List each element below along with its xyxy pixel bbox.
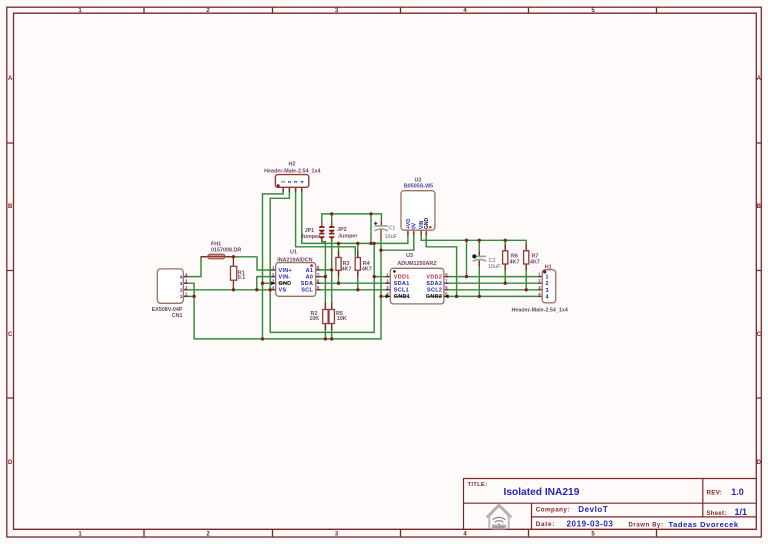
svg-text:2: 2: [287, 180, 292, 183]
svg-text:U1: U1: [290, 249, 297, 255]
svg-text:10K: 10K: [337, 316, 347, 322]
svg-text:VS: VS: [279, 288, 287, 294]
svg-text:10uF: 10uF: [385, 234, 398, 240]
svg-text:VIN-: VIN-: [279, 274, 291, 280]
svg-text:Isolated INA219: Isolated INA219: [504, 487, 580, 498]
svg-text:1: 1: [281, 180, 286, 183]
svg-text:2: 2: [546, 281, 549, 287]
svg-text:0.1: 0.1: [238, 275, 246, 281]
svg-text:A: A: [757, 76, 762, 82]
svg-text:REV:: REV:: [707, 490, 723, 497]
svg-text:2019-03-03: 2019-03-03: [567, 520, 614, 529]
svg-text:4: 4: [299, 180, 304, 183]
svg-text:SCL1: SCL1: [394, 288, 409, 294]
svg-text:0V: 0V: [412, 222, 418, 229]
svg-text:A: A: [8, 76, 13, 82]
svg-text:Company:: Company:: [536, 506, 570, 513]
svg-text:1.0: 1.0: [731, 487, 744, 497]
svg-text:1: 1: [546, 275, 549, 281]
svg-text:GND: GND: [279, 281, 292, 287]
svg-text:B: B: [8, 204, 13, 210]
svg-text:VDD2: VDD2: [426, 274, 442, 280]
svg-text:GND: GND: [424, 218, 430, 230]
svg-text:B0505S-W5: B0505S-W5: [404, 184, 433, 190]
svg-text:Header-Male-2.54_1x4: Header-Male-2.54_1x4: [512, 307, 568, 313]
svg-text:U3: U3: [406, 253, 413, 259]
svg-text:Drawn By:: Drawn By:: [629, 523, 664, 529]
svg-text:Jumper: Jumper: [338, 233, 358, 239]
svg-text:Tadeas Dvorecek: Tadeas Dvorecek: [669, 520, 739, 529]
svg-text:SDA: SDA: [301, 281, 313, 287]
svg-text:SCL: SCL: [301, 288, 313, 294]
svg-text:ADUM1250ARZ: ADUM1250ARZ: [397, 261, 437, 267]
svg-text:VIN+: VIN+: [279, 268, 293, 274]
svg-text:Header-Male-2.54_1x4: Header-Male-2.54_1x4: [264, 169, 320, 175]
svg-text:H1: H1: [545, 265, 552, 271]
svg-text:D: D: [8, 460, 13, 466]
svg-text:TITLE:: TITLE:: [468, 482, 488, 488]
svg-text:4: 4: [546, 294, 549, 300]
svg-text:SCL2: SCL2: [427, 288, 442, 294]
svg-text:CN1: CN1: [172, 313, 183, 319]
svg-text:4K7: 4K7: [530, 259, 540, 265]
svg-text:10uF: 10uF: [488, 264, 501, 270]
svg-text:INA219AIDCN: INA219AIDCN: [277, 257, 312, 263]
svg-text:VDD1: VDD1: [394, 274, 410, 280]
svg-text:Jumper: Jumper: [301, 234, 321, 240]
svg-text:B: B: [757, 204, 762, 210]
svg-text:3: 3: [546, 288, 549, 294]
svg-text:A0: A0: [306, 274, 314, 280]
svg-text:DevIoT: DevIoT: [578, 505, 608, 514]
svg-text:10K: 10K: [309, 316, 319, 322]
svg-text:GND2: GND2: [426, 294, 442, 300]
svg-text:1/1: 1/1: [735, 507, 748, 517]
svg-text:0157008.DR: 0157008.DR: [211, 248, 241, 254]
svg-text:U2: U2: [415, 178, 422, 184]
svg-text:4K7: 4K7: [362, 267, 372, 273]
svg-text:SDA1: SDA1: [394, 281, 410, 287]
svg-text:D: D: [757, 460, 762, 466]
svg-text:3: 3: [293, 180, 298, 183]
svg-text:GND1: GND1: [394, 294, 410, 300]
svg-text:SDA2: SDA2: [426, 281, 442, 287]
svg-text:H2: H2: [289, 161, 296, 167]
svg-text:Sheet:: Sheet:: [707, 511, 727, 517]
svg-text:A1: A1: [306, 268, 314, 274]
svg-text:C1: C1: [388, 226, 395, 232]
svg-text:JP2: JP2: [337, 227, 347, 233]
svg-text:DevIoT: DevIoT: [493, 526, 505, 530]
svg-text:4K7: 4K7: [510, 259, 520, 265]
svg-text:Date:: Date:: [536, 521, 555, 528]
svg-text:C: C: [757, 332, 762, 338]
svg-text:C: C: [8, 332, 13, 338]
svg-text:4K7: 4K7: [342, 267, 352, 273]
